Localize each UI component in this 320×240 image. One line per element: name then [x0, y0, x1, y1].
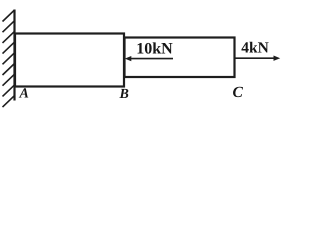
- svg-text:C: C: [233, 84, 244, 101]
- svg-text:4kN: 4kN: [241, 40, 269, 57]
- svg-text:B: B: [119, 87, 129, 102]
- svg-text:10kN: 10kN: [136, 40, 173, 57]
- svg-text:A: A: [19, 87, 29, 102]
